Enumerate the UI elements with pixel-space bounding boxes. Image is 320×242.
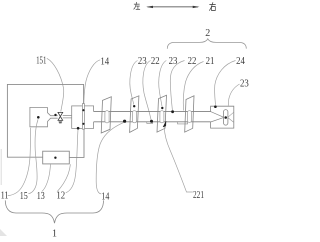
svg-text:1: 1	[52, 228, 57, 237]
tailstock cone right	[228, 112, 234, 122]
tailstock capsule center	[224, 110, 228, 126]
node dot on shaft top x172	[171, 110, 174, 113]
node dot on shaft x151	[150, 120, 153, 123]
node dot before valve	[54, 114, 56, 116]
leader 21	[183, 62, 203, 111]
leader 24	[215, 61, 236, 105]
svg-text:221: 221	[193, 190, 204, 201]
hub capsule of disc 2	[132, 111, 136, 123]
svg-text:23: 23	[138, 56, 147, 67]
shaft bottom line	[94, 121, 211, 123]
tailstock cone left	[211, 112, 224, 122]
wire valve to coupling flange	[63, 116, 72, 118]
disc plate 23 a	[130, 96, 139, 133]
leader 11	[8, 128, 31, 196]
disc plate near coupling	[101, 97, 111, 133]
svg-text:22: 22	[188, 56, 197, 67]
coupling plate 14	[82, 104, 84, 130]
leader 23 right	[228, 84, 239, 106]
motor block 12	[43, 151, 70, 164]
leader 15	[28, 119, 38, 194]
scan artifact corner	[0, 229, 7, 236]
svg-text:13: 13	[37, 191, 45, 202]
shaft top line	[94, 111, 211, 113]
svg-text:14: 14	[101, 192, 109, 203]
leader 22 b	[170, 61, 184, 111]
leader 22 a	[143, 61, 151, 121]
brace for group 1	[5, 200, 103, 223]
disc plate 23 b	[157, 95, 167, 132]
hub capsule of disc 4	[187, 111, 191, 123]
node dot in disc 2	[133, 105, 135, 107]
character left (zuo)	[134, 2, 141, 9]
svg-text:12: 12	[56, 191, 65, 202]
node dot in motor block	[54, 157, 56, 159]
svg-text:15: 15	[20, 191, 28, 202]
feed funnel block 13	[30, 107, 58, 126]
wire motor to coupling riser	[69, 129, 84, 157]
clamp fork on shaft	[85, 106, 94, 128]
leader 12	[57, 164, 70, 192]
hub capsule of disc 1	[105, 111, 109, 123]
node dot on hub bottom	[77, 127, 80, 130]
node dot in disc 3	[161, 107, 163, 109]
tailstock box 24	[211, 106, 234, 128]
node dot in funnel	[37, 116, 40, 119]
sleeve bracket on shaft	[178, 122, 188, 124]
arrowhead of leader 221	[163, 121, 166, 127]
coupling hub block	[72, 106, 84, 128]
leader 14 top	[84, 60, 101, 109]
hub capsule of disc 3	[160, 111, 164, 123]
direction arrow	[146, 6, 199, 8]
leader from hub dot down	[66, 130, 78, 193]
svg-text:23: 23	[240, 79, 249, 90]
svg-text:22: 22	[151, 56, 160, 67]
svg-text:151: 151	[36, 55, 46, 66]
svg-text:2: 2	[205, 28, 210, 39]
node dot plate upper	[82, 109, 84, 111]
leader 13	[42, 164, 51, 191]
node dot on shaft x124	[123, 120, 126, 123]
character right (you)	[209, 2, 215, 10]
scan artifact left edge	[0, 149, 2, 185]
node dot capsule	[224, 116, 227, 119]
leader 14 bottom curve	[96, 122, 124, 193]
leader 23 a	[130, 61, 138, 105]
svg-text:11: 11	[1, 191, 9, 202]
brace for group 2	[167, 39, 246, 49]
node dot tailstock corner	[214, 105, 217, 108]
svg-text:21: 21	[206, 56, 215, 67]
valve 151 hourglass	[58, 112, 63, 123]
sleeve bar on shaft left of disc3	[147, 122, 153, 123]
leader 221	[164, 128, 193, 193]
leader 151	[47, 58, 64, 111]
disc plate 22 b	[185, 96, 194, 132]
box 1 machine housing	[7, 84, 83, 157]
node dot plate lower	[82, 123, 84, 125]
svg-text:24: 24	[236, 56, 245, 67]
leader 23 b	[159, 61, 167, 107]
svg-text:14: 14	[100, 56, 109, 67]
